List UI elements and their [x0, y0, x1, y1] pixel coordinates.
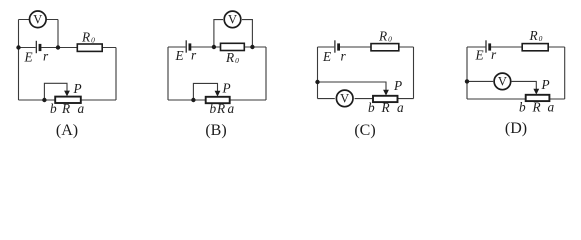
- svg-text:R: R: [532, 100, 541, 115]
- voltmeter V (B): [224, 11, 241, 28]
- wire: top wire (D): [467, 46, 565, 48]
- junction dot right of R0 (B): [250, 45, 254, 49]
- junction dot bottom (A): [42, 98, 46, 102]
- wire: bottom wire (B): [168, 99, 266, 101]
- svg-text:R: R: [216, 101, 225, 116]
- svg-text:a: a: [397, 100, 404, 115]
- wiper arrow (D): [533, 89, 539, 95]
- wire: right vertical (A): [115, 48, 117, 101]
- svg-text:P: P: [222, 81, 231, 96]
- wire: left vertical (B): [167, 47, 169, 100]
- battery E r (A): [36, 41, 40, 53]
- wire: voltmeter branch (B): [214, 20, 253, 47]
- wire: top wire (C): [318, 46, 414, 48]
- resistor R0 box (C): [371, 44, 399, 51]
- wire: bottom wire (A): [19, 99, 117, 101]
- wire: right vertical (C): [413, 47, 415, 99]
- wire: top wire (B): [168, 46, 266, 48]
- junction dot left of R0 (B): [212, 45, 216, 49]
- wire: wiper link (B): [193, 83, 217, 100]
- svg-text:E: E: [175, 48, 184, 63]
- svg-text:R: R: [381, 100, 390, 115]
- wire: left vertical (C): [317, 47, 319, 99]
- wiper arrow (A): [64, 91, 70, 97]
- svg-text:b: b: [519, 100, 526, 115]
- wire: wiper link (C): [318, 82, 387, 91]
- svg-text:V: V: [498, 74, 507, 88]
- rheostat box R (D): [526, 95, 550, 101]
- voltmeter V (C): [336, 90, 353, 107]
- battery E r (C): [335, 40, 339, 52]
- svg-text:V: V: [340, 91, 349, 105]
- rheostat box R (C): [373, 96, 398, 102]
- svg-text:(B): (B): [205, 122, 226, 139]
- wire: left vertical (D): [466, 47, 468, 99]
- svg-text:r: r: [43, 49, 49, 64]
- svg-text:(C): (C): [354, 122, 375, 139]
- wire: voltmeter branch right leg (A): [57, 20, 59, 48]
- svg-text:r: r: [341, 49, 347, 64]
- svg-text:b: b: [210, 101, 217, 116]
- svg-text:R: R: [61, 101, 70, 116]
- svg-text:a: a: [548, 100, 555, 115]
- svg-text:E: E: [24, 50, 33, 65]
- wire: right vertical (D): [564, 47, 566, 99]
- svg-text:b: b: [50, 101, 57, 116]
- wire: bottom wire (C): [318, 98, 414, 100]
- svg-text:P: P: [393, 78, 402, 93]
- junction dot (D): [465, 79, 469, 83]
- junction dot right of battery (A): [56, 45, 60, 49]
- svg-text:a: a: [228, 101, 235, 116]
- junction dot (C): [315, 80, 319, 84]
- junction dot bottom (B): [191, 98, 195, 102]
- resistor R0 box (D): [522, 44, 548, 51]
- battery E r (B): [186, 40, 190, 52]
- svg-text:(D): (D): [505, 120, 527, 137]
- wiper arrow (B): [215, 91, 221, 97]
- voltmeter V (D): [494, 73, 511, 90]
- wire: voltmeter-wiper branch (D): [467, 81, 536, 89]
- junction dot left (A): [16, 45, 20, 49]
- wiper arrow (C): [383, 90, 389, 96]
- svg-text:P: P: [73, 81, 82, 96]
- svg-text:P: P: [541, 77, 550, 92]
- wire: wiper link (A): [44, 83, 67, 100]
- rheostat box R (A): [55, 97, 81, 103]
- svg-text:a: a: [78, 101, 85, 116]
- svg-text:(A): (A): [56, 122, 78, 139]
- voltmeter V (A): [30, 11, 47, 28]
- resistor R0 box (B): [221, 43, 245, 50]
- svg-text:E: E: [322, 49, 331, 64]
- svg-text:V: V: [228, 12, 237, 26]
- svg-text:V: V: [33, 12, 42, 26]
- wire: bottom wire (D): [467, 98, 565, 100]
- wire: left vertical (A): [18, 20, 20, 101]
- resistor R0 box (A): [77, 44, 102, 51]
- svg-text:r: r: [491, 47, 497, 62]
- battery E r (D): [486, 40, 490, 52]
- wire: voltmeter branch top (A): [19, 19, 59, 21]
- rheostat box R (B): [206, 97, 230, 103]
- svg-text:b: b: [368, 100, 375, 115]
- svg-text:r: r: [191, 48, 197, 63]
- svg-text:E: E: [475, 48, 484, 63]
- wire: top wire (A): [19, 47, 117, 49]
- wire: right vertical (B): [265, 47, 267, 100]
